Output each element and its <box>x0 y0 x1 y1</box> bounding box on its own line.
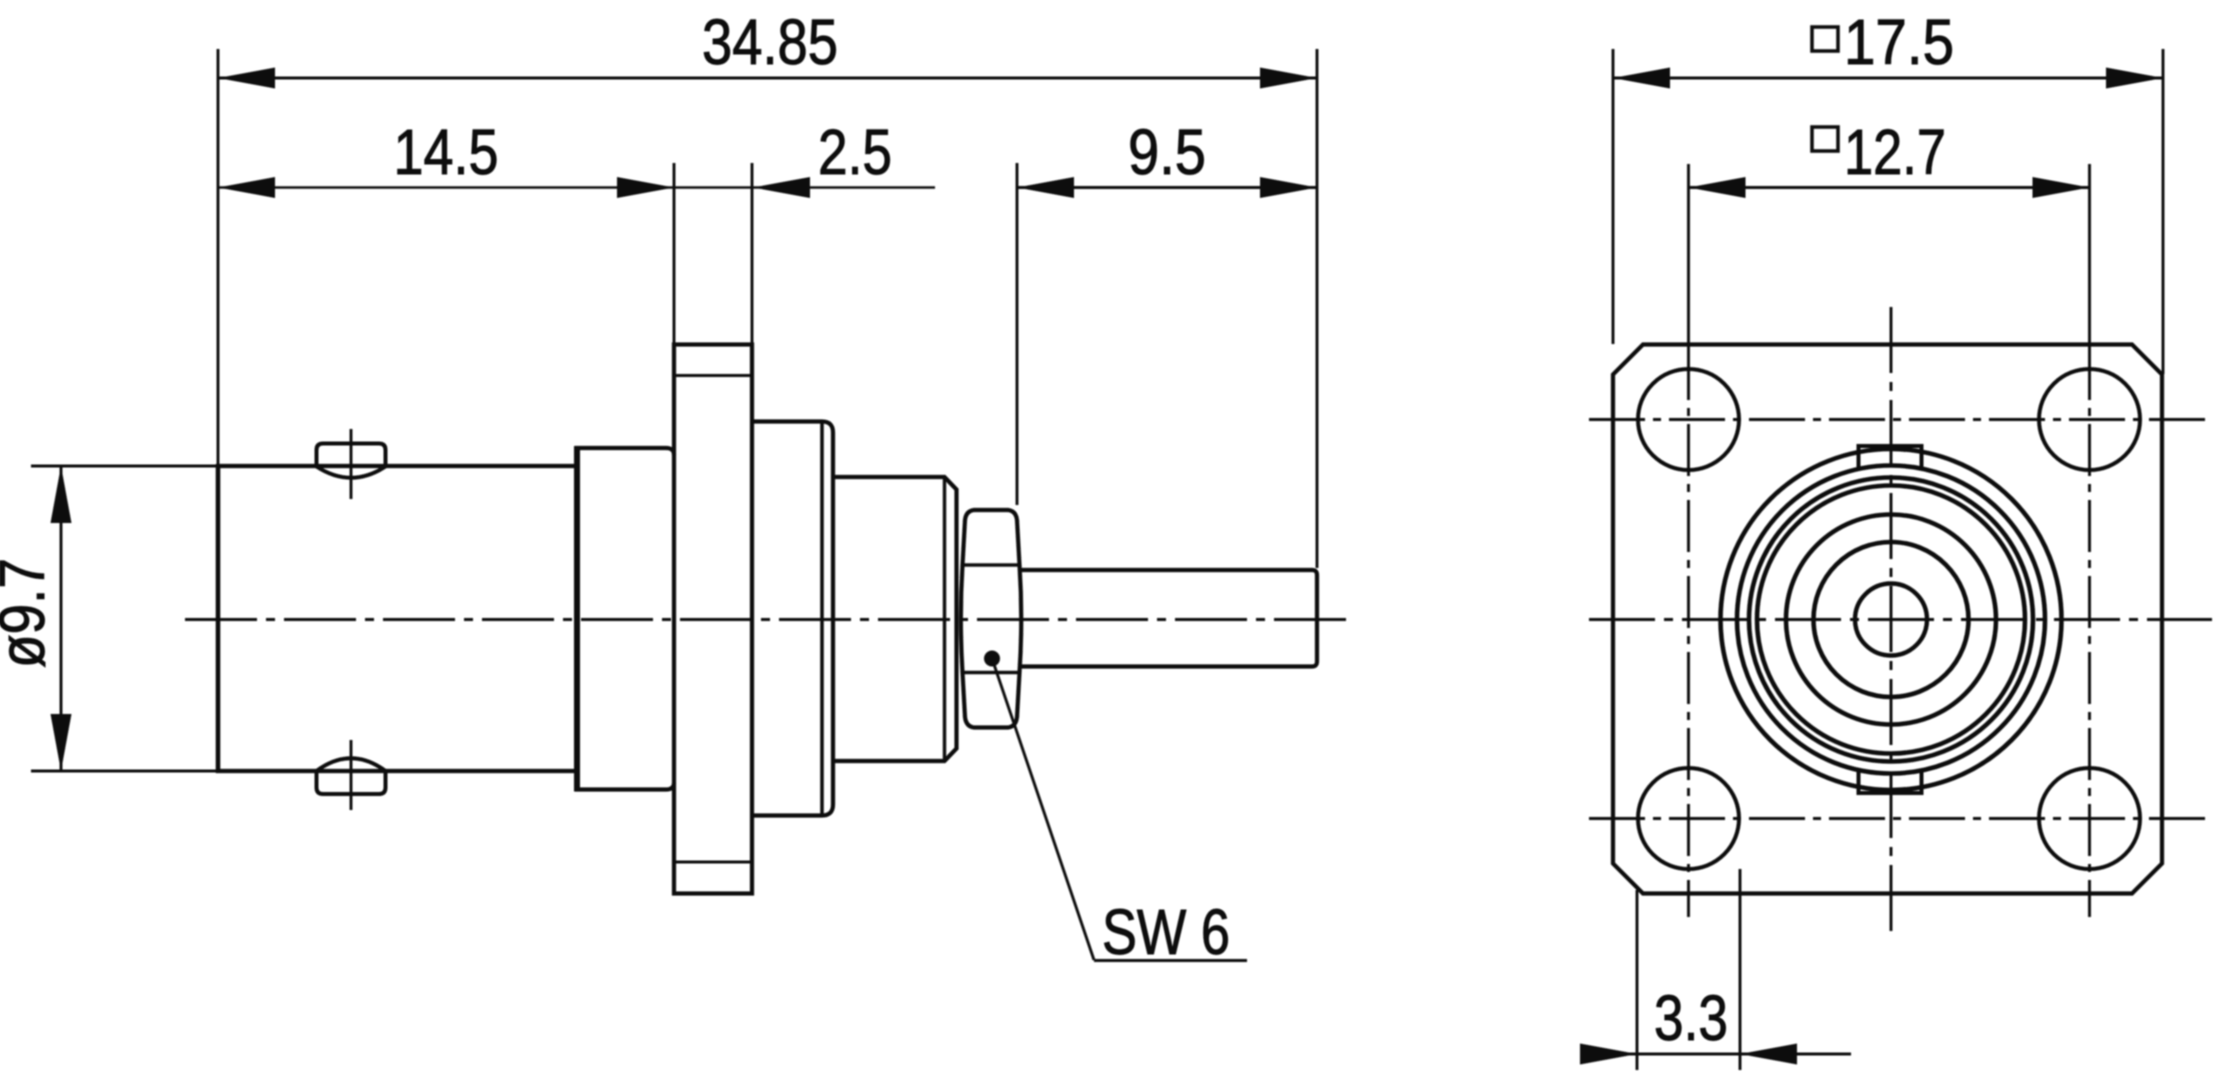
key tab bottom <box>1859 772 1922 793</box>
mounting hole bottom-right <box>2039 768 2140 869</box>
extension lines for dia 9.7 <box>31 465 218 468</box>
svg-text:14.5: 14.5 <box>394 116 499 188</box>
dim 2.5 <box>753 177 810 198</box>
concentric circles connector front <box>1721 449 2062 790</box>
hex nut SW6 <box>961 510 1021 728</box>
cable shaft <box>1020 570 1317 667</box>
dim square 12.7 <box>1689 186 2090 189</box>
flange side view <box>674 345 752 894</box>
flange front view <box>1613 345 2162 894</box>
dim 3.3 <box>1636 890 1639 1070</box>
dim 14.5 <box>218 186 935 189</box>
centerlines front view <box>1589 618 2212 621</box>
svg-text:SW 6: SW 6 <box>1102 896 1230 968</box>
svg-text:17.5: 17.5 <box>1844 6 1954 78</box>
centerline left view <box>185 618 1352 621</box>
dim 9.5 <box>1017 186 1317 189</box>
mounting hole top-right <box>2039 369 2140 470</box>
svg-text:12.7: 12.7 <box>1844 116 1946 188</box>
collar cylinder <box>574 446 580 792</box>
svg-text:ø9.7: ø9.7 <box>0 558 58 668</box>
svg-text:9.5: 9.5 <box>1128 116 1206 188</box>
key tab top <box>1859 446 1922 467</box>
svg-text:34.85: 34.85 <box>702 6 838 78</box>
svg-text:3.3: 3.3 <box>1654 982 1728 1054</box>
dim 34.85 <box>218 77 1317 80</box>
leader SW 6 <box>984 651 1000 667</box>
dim square 17.5 <box>1613 77 2163 80</box>
bayonet lug bottom <box>317 771 386 794</box>
rear section B <box>833 477 957 761</box>
svg-text:2.5: 2.5 <box>818 116 892 188</box>
dim dia 9.7 <box>60 466 63 771</box>
wire body left edge + 34.85 left extension line <box>217 49 220 466</box>
mounting hole bottom-left <box>1638 768 1739 869</box>
bayonet lug top <box>317 444 386 467</box>
rear section A <box>752 422 833 816</box>
mounting hole top-left <box>1638 369 1739 470</box>
connector body (BNC shell) <box>216 464 577 468</box>
